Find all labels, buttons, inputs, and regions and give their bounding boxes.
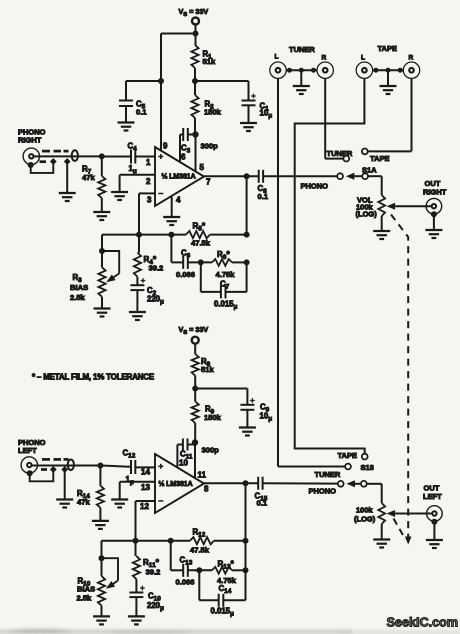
svg-text:1μ: 1μ [126,475,134,486]
svg-text:1: 1 [146,158,151,167]
svg-text:0.015μ: 0.015μ [211,607,235,618]
svg-text:0.1: 0.1 [257,499,268,508]
svg-text:47k: 47k [77,498,90,507]
svg-text:0.1: 0.1 [258,192,269,201]
svg-text:13: 13 [141,483,150,492]
svg-text:TAPE: TAPE [370,154,389,163]
svg-text:R: R [322,55,327,62]
svg-text:C12: C12 [123,449,136,460]
svg-text:TUNER: TUNER [315,470,341,479]
svg-text:TAPE: TAPE [378,44,397,53]
svg-text:5: 5 [200,163,205,172]
svg-text:8: 8 [204,485,209,494]
svg-text:½ LM381A: ½ LM381A [159,479,193,488]
svg-text:47.5k: 47.5k [191,239,211,248]
svg-text:L: L [275,54,279,61]
svg-text:R: R [409,55,414,62]
svg-text:9: 9 [163,142,168,151]
svg-text:LEFT: LEFT [423,492,442,501]
svg-text:VS = 33V: VS = 33V [179,7,209,18]
svg-text:0.015μ: 0.015μ [214,300,238,311]
svg-text:3: 3 [147,196,152,205]
svg-text:10μ: 10μ [260,109,273,120]
svg-text:300p: 300p [202,446,220,455]
svg-text:TAPE: TAPE [338,451,357,460]
svg-text:47.5k: 47.5k [190,546,210,555]
svg-text:* – METAL FILM, 1% TOLERANCE: * – METAL FILM, 1% TOLERANCE [32,373,155,382]
svg-text:C4: C4 [128,142,138,153]
svg-text:39.2: 39.2 [146,568,161,577]
svg-text:220μ: 220μ [147,295,164,306]
svg-text:SeekIC.com: SeekIC.com [387,615,459,630]
svg-text:RIGHT: RIGHT [423,188,447,197]
svg-text:PHONO: PHONO [309,487,337,496]
svg-text:C14: C14 [219,584,232,595]
svg-text:4.75k: 4.75k [216,270,236,279]
svg-text:10: 10 [179,459,188,468]
svg-text:300p: 300p [201,142,219,151]
svg-text:½ LM381A: ½ LM381A [162,172,196,181]
svg-text:7: 7 [206,178,211,187]
svg-text:14: 14 [141,468,150,477]
svg-text:10μ: 10μ [260,412,273,423]
svg-text:BIAS: BIAS [77,585,95,594]
svg-text:2.5k: 2.5k [77,594,93,603]
svg-text:LEFT: LEFT [18,446,37,455]
svg-text:11: 11 [198,471,207,480]
svg-text:12: 12 [140,502,149,511]
svg-text:0.066: 0.066 [176,270,195,279]
svg-text:47k: 47k [82,173,95,182]
svg-text:TUNER: TUNER [289,45,315,54]
svg-text:150k: 150k [204,108,222,117]
svg-text:S1A: S1A [362,166,377,175]
svg-text:51k: 51k [203,57,216,66]
svg-text:0.1: 0.1 [136,108,147,117]
svg-text:150k: 150k [204,413,222,422]
svg-text:C13: C13 [180,556,193,567]
svg-text:2.5k: 2.5k [70,293,86,302]
svg-text:VS = 33V: VS = 33V [179,325,209,336]
svg-text:BIAS: BIAS [70,283,88,292]
svg-text:RIGHT: RIGHT [18,136,42,145]
svg-text:51k: 51k [201,365,214,374]
svg-text:39.2: 39.2 [149,264,164,273]
svg-text:100k: 100k [356,506,374,515]
svg-text:S18: S18 [361,463,374,472]
svg-text:L: L [361,55,365,62]
svg-text:(LOG): (LOG) [354,515,376,524]
svg-text:1μ: 1μ [129,164,137,175]
svg-text:2: 2 [146,177,151,186]
svg-text:220μ: 220μ [147,601,164,612]
svg-text:0.066: 0.066 [176,578,195,587]
svg-text:6: 6 [181,153,186,162]
svg-text:4: 4 [176,196,181,205]
svg-text:PHONO: PHONO [301,182,329,191]
svg-text:(LOG): (LOG) [356,210,378,219]
